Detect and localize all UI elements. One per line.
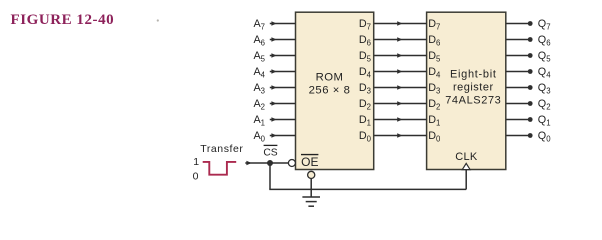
svg-text:Eight-bit: Eight-bit	[450, 69, 497, 81]
wire output Q1	[506, 119, 528, 121]
svg-text:256 × 8: 256 × 8	[309, 84, 351, 96]
OE pin inversion bubble	[308, 171, 315, 178]
wire rail up to CLK pin	[465, 170, 467, 189]
wire output Q2	[506, 103, 528, 105]
svg-text:A3: A3	[253, 82, 265, 96]
svg-text:Q6: Q6	[538, 34, 551, 48]
wire junction down to bottom rail	[269, 163, 271, 189]
node Q6 terminal dot	[528, 37, 533, 42]
wire address input A2	[270, 101, 296, 105]
wire OE bubble to ground	[310, 179, 312, 198]
wire output Q0	[506, 135, 528, 137]
svg-text:A0: A0	[253, 130, 265, 144]
svg-text:OE: OE	[301, 155, 318, 169]
svg-text:A7: A7	[253, 18, 265, 32]
ROM U1 label "ROM 256 x 8"	[309, 71, 351, 96]
svg-text:CS: CS	[263, 147, 277, 158]
node Q7 terminal dot	[528, 21, 533, 26]
CS pin inversion bubble	[288, 160, 295, 167]
wire address input A0	[270, 133, 296, 137]
wire data bus D3 ROM to register	[374, 85, 426, 89]
wire data bus D2 ROM to register	[374, 101, 426, 105]
svg-text:Q5: Q5	[538, 50, 551, 64]
wire Transfer to CS node	[245, 161, 270, 165]
wire junction to CS pin	[270, 162, 289, 164]
svg-text:Q1: Q1	[538, 114, 551, 128]
label OE (active low) with overline	[301, 155, 318, 170]
svg-text:register: register	[453, 82, 494, 94]
node Q1 terminal dot	[528, 117, 533, 122]
wire address input A5	[270, 53, 296, 57]
wire output Q3	[506, 87, 528, 89]
wire data bus D5 ROM to register	[374, 53, 426, 57]
node Q2 terminal dot	[528, 101, 533, 106]
wire data bus D6 ROM to register	[374, 37, 426, 41]
svg-text:Q4: Q4	[538, 66, 551, 80]
svg-text:Transfer: Transfer	[200, 143, 243, 155]
svg-text:1: 1	[193, 156, 199, 168]
register U2 block body (74ALS273)	[427, 12, 506, 169]
wire data bus D4 ROM to register	[374, 69, 426, 73]
node junction CS/CLK tie	[267, 160, 273, 166]
wire address input A6	[270, 37, 296, 41]
wire output Q5	[506, 55, 528, 57]
svg-text:A4: A4	[253, 66, 265, 80]
ground symbol	[302, 197, 320, 206]
svg-text:74ALS273: 74ALS273	[445, 95, 501, 107]
svg-text:Q7: Q7	[538, 18, 551, 32]
CLK edge-trigger triangle	[462, 163, 470, 169]
node Q0 terminal dot	[528, 133, 533, 138]
wire address input A4	[270, 69, 296, 73]
svg-text:CLK: CLK	[455, 151, 478, 163]
register U2 label "Eight-bit register 74ALS273"	[445, 69, 501, 107]
svg-text:Q0: Q0	[538, 130, 551, 144]
svg-text:A2: A2	[253, 98, 265, 112]
svg-text:0: 0	[193, 171, 199, 183]
wire bottom rail to CLK	[269, 188, 466, 190]
node Q4 terminal dot	[528, 69, 533, 74]
svg-text:FIGURE 12-40: FIGURE 12-40	[11, 12, 115, 28]
Transfer pulse waveform	[203, 162, 237, 175]
svg-text:A1: A1	[253, 114, 265, 128]
wire address input A3	[270, 85, 296, 89]
node Q3 terminal dot	[528, 85, 533, 90]
svg-text:A5: A5	[253, 50, 265, 64]
wire address input A7	[270, 21, 296, 25]
stray print dot	[157, 19, 159, 21]
svg-text:ROM: ROM	[316, 71, 344, 83]
ROM U1 block body	[296, 12, 374, 169]
wire output Q4	[506, 71, 528, 73]
wire output Q6	[506, 39, 528, 41]
wire output Q7	[506, 23, 528, 25]
svg-text:Q2: Q2	[538, 98, 551, 112]
wire address input A1	[270, 117, 296, 121]
wire data bus D1 ROM to register	[374, 117, 426, 121]
node Q5 terminal dot	[528, 53, 533, 58]
wire data bus D0 ROM to register	[374, 133, 426, 137]
wire data bus D7 ROM to register	[374, 21, 426, 25]
svg-text:Q3: Q3	[538, 82, 551, 96]
label CS (active low) with overline	[263, 145, 277, 158]
svg-text:A6: A6	[253, 34, 265, 48]
